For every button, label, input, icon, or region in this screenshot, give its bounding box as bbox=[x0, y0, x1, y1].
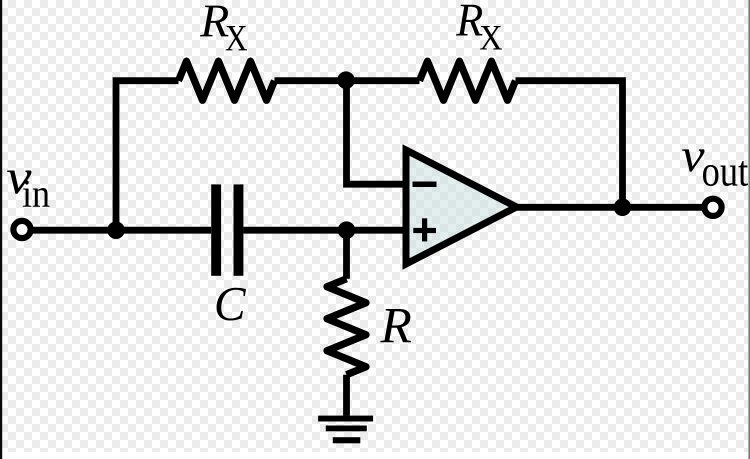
resistor R bbox=[327, 279, 366, 375]
terminal vin bbox=[13, 221, 30, 238]
node: non-inverting input junction bbox=[338, 221, 356, 239]
terminal vout bbox=[704, 199, 721, 216]
label RX2 R bbox=[456, 5, 483, 36]
label C bbox=[217, 288, 246, 321]
capacitor C plates bbox=[211, 184, 243, 275]
left border line bbox=[0, 0, 2, 459]
op-amp plus input sign bbox=[413, 218, 436, 241]
resistor RX2 bbox=[420, 61, 516, 100]
resistor RX1 bbox=[179, 61, 275, 100]
op-amp minus input sign bbox=[413, 182, 437, 188]
wire: RX2 right then down to output node bbox=[516, 81, 623, 208]
node: output junction bbox=[614, 199, 632, 217]
label vout v bbox=[682, 149, 705, 171]
label vin subscript in bbox=[23, 180, 50, 206]
right border line bbox=[748, 0, 750, 459]
wire: input node up and right to RX1 bbox=[116, 81, 179, 231]
op-amp U1 bbox=[406, 150, 517, 264]
label R bbox=[380, 309, 411, 342]
label vin v bbox=[7, 171, 32, 194]
wire: non-inverting node down to resistor R bbox=[343, 230, 350, 279]
wire: vin terminal to left plate of C bbox=[31, 227, 211, 234]
wire: RX1 right to RX2 left through node bbox=[275, 77, 420, 84]
node: between RX1 and RX2 bbox=[337, 71, 355, 89]
label RX1 R bbox=[200, 6, 229, 37]
label RX2 subscript X bbox=[480, 26, 502, 49]
wire: R bottom to ground bbox=[343, 375, 350, 416]
label vout subscript out bbox=[703, 161, 748, 186]
ground bbox=[318, 416, 373, 444]
node: input junction bbox=[107, 221, 125, 239]
label RX1 subscript X bbox=[226, 26, 247, 50]
wire: C right plate to non-inverting input bbox=[243, 227, 407, 234]
wire: op-amp output to vout terminal bbox=[512, 204, 702, 211]
wire: node between resistors down to inverting input bbox=[347, 81, 408, 185]
